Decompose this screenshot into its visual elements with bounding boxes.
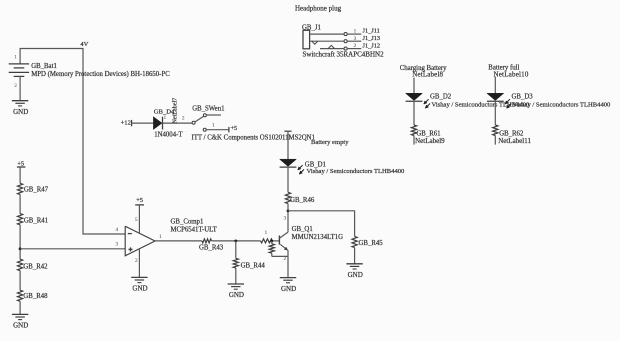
svg-text:GND: GND: [229, 291, 244, 299]
svg-text:Headphone plug: Headphone plug: [295, 5, 342, 13]
svg-text:1N4004-T: 1N4004-T: [154, 132, 183, 139]
svg-text:NetLabel9: NetLabel9: [415, 137, 445, 145]
svg-text:GB_D2: GB_D2: [430, 93, 452, 100]
svg-text:GND: GND: [132, 285, 147, 293]
svg-text:+12: +12: [121, 119, 131, 126]
svg-text:NetLabel11: NetLabel11: [498, 137, 531, 145]
svg-text:Vishay / Semiconductors TLHB44: Vishay / Semiconductors TLHB4400: [307, 168, 406, 175]
svg-text:+5: +5: [136, 197, 144, 204]
svg-text:3: 3: [354, 36, 357, 42]
svg-text:4: 4: [115, 227, 118, 233]
svg-text:3: 3: [115, 242, 118, 248]
svg-text:MMUN2134LT1G: MMUN2134LT1G: [292, 234, 344, 241]
svg-text:3: 3: [284, 216, 287, 222]
svg-text:J1_J13: J1_J13: [363, 35, 381, 42]
svg-text:2: 2: [182, 116, 185, 122]
svg-text:GB_D3: GB_D3: [512, 93, 534, 100]
svg-text:GB_R48: GB_R48: [23, 293, 48, 300]
svg-text:+5: +5: [231, 125, 238, 132]
svg-text:MCP6541T-ULT: MCP6541T-ULT: [171, 227, 218, 234]
svg-text:1: 1: [354, 29, 357, 35]
svg-text:J1_J12: J1_J12: [363, 42, 381, 49]
svg-text:GB_Comp1: GB_Comp1: [171, 219, 204, 226]
svg-text:2: 2: [135, 258, 138, 264]
svg-text:GB_Q1: GB_Q1: [292, 226, 313, 233]
svg-text:2: 2: [354, 43, 357, 49]
svg-text:GND: GND: [13, 108, 28, 116]
svg-text:5: 5: [135, 217, 138, 223]
svg-text:GB_R42: GB_R42: [23, 264, 48, 271]
svg-text:4V: 4V: [80, 41, 88, 48]
svg-text:Battery empty: Battery empty: [311, 139, 349, 146]
svg-text:Vishay / Semiconductors TLHB44: Vishay / Semiconductors TLHB4400: [513, 102, 612, 109]
svg-text:GB_Bat1: GB_Bat1: [31, 63, 57, 70]
svg-text:NetLabel10: NetLabel10: [494, 70, 529, 78]
svg-text:GND: GND: [281, 285, 296, 293]
svg-text:NetLabel7: NetLabel7: [173, 98, 179, 124]
svg-text:1: 1: [212, 123, 215, 129]
svg-text:1: 1: [264, 230, 267, 236]
svg-text:GB_R43: GB_R43: [199, 244, 224, 251]
svg-text:1: 1: [159, 234, 162, 240]
svg-text:GB_R41: GB_R41: [24, 217, 48, 224]
svg-text:GB_SWen1: GB_SWen1: [192, 106, 224, 113]
svg-text:GB_R45: GB_R45: [359, 240, 384, 247]
svg-text:NetLabel8: NetLabel8: [412, 70, 443, 78]
svg-text:GB_R47: GB_R47: [24, 187, 49, 194]
svg-text:J1_J11: J1_J11: [363, 28, 380, 35]
svg-text:GND: GND: [348, 271, 363, 279]
svg-text:MPD (Memory Protection Devices: MPD (Memory Protection Devices) BH-18650…: [31, 71, 170, 78]
svg-text:Switchcraft 35RAPC4BHN2: Switchcraft 35RAPC4BHN2: [303, 50, 385, 58]
svg-text:GND: GND: [13, 322, 28, 330]
svg-text:2: 2: [284, 256, 287, 262]
svg-text:ITT / C&K Components OS102011M: ITT / C&K Components OS102011MS2QN1: [192, 135, 316, 142]
svg-text:GB_R46: GB_R46: [290, 197, 315, 204]
svg-text:GB_R44: GB_R44: [241, 262, 266, 269]
